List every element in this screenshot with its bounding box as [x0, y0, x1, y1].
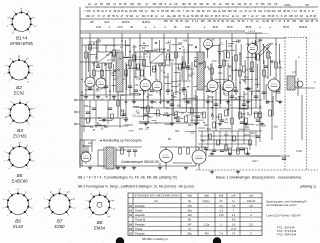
svg-text:18 15 91: 18 15 91: [122, 20, 131, 24]
svg-text:B1: B1: [129, 204, 133, 208]
svg-text:220: 220: [193, 96, 198, 99]
svg-text:470: 470: [175, 91, 180, 94]
svg-text:R34: R34: [244, 134, 249, 137]
svg-text:8,2: 8,2: [188, 101, 192, 104]
svg-text:8,2: 8,2: [176, 110, 180, 113]
svg-text:EM34: EM34: [94, 226, 106, 231]
svg-text:100: 100: [97, 124, 102, 127]
svg-text:50p: 50p: [170, 59, 175, 62]
svg-text:28 26 31: 28 26 31: [299, 25, 308, 29]
svg-text:330: 330: [262, 125, 267, 128]
svg-text:8,2: 8,2: [187, 114, 191, 117]
svg-text:EC92: EC92: [14, 91, 25, 96]
svg-text:Valt: Valt: [204, 194, 209, 198]
svg-text:5k6: 5k6: [175, 130, 180, 133]
svg-text:58: 58: [306, 3, 310, 7]
svg-text:B3: B3: [129, 213, 133, 217]
svg-text:5k6: 5k6: [207, 128, 212, 131]
svg-text:4,7: 4,7: [121, 110, 125, 113]
svg-text:2,2: 2,2: [228, 104, 232, 107]
svg-text:330: 330: [198, 63, 203, 66]
svg-text:(afdeling 1): (afdeling 1): [300, 185, 316, 189]
svg-text:-: -: [251, 219, 252, 222]
svg-text:8,2: 8,2: [211, 115, 215, 118]
svg-text:5k6: 5k6: [139, 128, 144, 131]
svg-text:R17: R17: [148, 116, 153, 119]
svg-text:R30: R30: [216, 116, 221, 119]
svg-text:120+41: 120+41: [247, 199, 256, 203]
svg-text:50p: 50p: [125, 124, 130, 127]
svg-text:L17: L17: [292, 71, 297, 74]
svg-text:4,5: 4,5: [232, 218, 236, 222]
svg-text:18 15 91: 18 15 91: [142, 20, 151, 24]
svg-text:100: 100: [161, 100, 166, 103]
svg-text:100: 100: [228, 45, 233, 48]
svg-text:R19: R19: [164, 76, 169, 79]
svg-text:470: 470: [165, 65, 170, 68]
svg-text:81 87: 81 87: [213, 25, 219, 29]
svg-text:1 pein (12x7+5x4x) + 500 AF: 1 pein (12x7+5x4x) + 500 AF: [266, 214, 301, 218]
svg-text:7,5: 7,5: [232, 204, 236, 208]
svg-text:330: 330: [189, 44, 194, 47]
svg-text:0,1: 0,1: [193, 115, 197, 118]
svg-text:220: 220: [190, 131, 195, 134]
svg-text:2,2: 2,2: [145, 128, 149, 131]
svg-text:Heptode: Heptode: [135, 213, 145, 217]
svg-text:12 47: 12 47: [96, 25, 102, 29]
svg-text:85 78: 85 78: [283, 25, 289, 29]
svg-text:140: 140: [187, 213, 192, 217]
svg-text:EABC80: EABC80: [11, 179, 28, 184]
svg-text:4,7: 4,7: [142, 50, 146, 53]
svg-text:1,25: 1,25: [218, 213, 224, 217]
svg-text:R28: R28: [208, 96, 213, 99]
svg-text:5k6: 5k6: [104, 126, 109, 129]
svg-text:4,5: 4,5: [249, 204, 253, 208]
svg-text:0,1: 0,1: [220, 43, 224, 46]
svg-text:5k6: 5k6: [134, 51, 139, 54]
svg-text:50p: 50p: [274, 126, 279, 129]
svg-text:R27: R27: [204, 124, 209, 127]
svg-text:S14: S14: [178, 42, 183, 45]
svg-text:4a 47: 4a 47: [104, 20, 110, 24]
svg-text:100: 100: [251, 132, 256, 135]
svg-text:Volt: Volt: [219, 194, 224, 198]
svg-text:Pentode: Pentode: [135, 204, 145, 208]
svg-text:EZ80: EZ80: [54, 224, 65, 229]
svg-text:100: 100: [245, 126, 250, 129]
svg-text:4,7: 4,7: [100, 99, 104, 102]
svg-text:R40: R40: [270, 60, 275, 63]
svg-text:100: 100: [141, 63, 146, 66]
svg-text:0,5W: 0,5W: [296, 150, 302, 153]
svg-text:12 47: 12 47: [117, 25, 123, 29]
svg-text:147: 147: [187, 222, 192, 226]
svg-text:C61: C61: [218, 72, 223, 75]
svg-text:2,2: 2,2: [219, 204, 223, 208]
svg-text:0,1: 0,1: [124, 101, 128, 104]
svg-text:C: C: [314, 80, 316, 84]
svg-text:330: 330: [95, 90, 100, 93]
svg-text:C68: C68: [240, 116, 245, 119]
svg-text:-: -: [206, 219, 207, 222]
svg-text:85 78: 85 78: [227, 25, 233, 29]
svg-text:4,7: 4,7: [136, 110, 140, 113]
svg-text:C66: C66: [232, 90, 237, 93]
svg-text:4,7: 4,7: [167, 115, 171, 118]
svg-text:C71: C71: [264, 76, 269, 79]
svg-text:330: 330: [152, 101, 157, 104]
svg-text:NB NB's 1 stelling f.o.: NB NB's 1 stelling f.o.: [142, 237, 169, 241]
svg-text:S20: S20: [276, 92, 281, 95]
svg-text:-: -: [206, 205, 207, 208]
svg-text:met richtwater loss com/?.: met richtwater loss com/?.: [266, 203, 297, 207]
svg-text:2,2: 2,2: [168, 40, 172, 43]
svg-text:26a: 26a: [187, 232, 192, 236]
svg-text:330: 330: [200, 112, 205, 115]
svg-text:220: 220: [190, 73, 195, 76]
svg-text:740: 740: [204, 232, 209, 236]
svg-text:B4: B4: [129, 222, 133, 226]
svg-text:NB 1 = 4 = 5 = 4 : 5 omwikkeli: NB 1 = 4 = 5 = 4 : 5 omwikkelingen. Fo, …: [78, 176, 177, 180]
svg-text:-: -: [251, 210, 252, 213]
svg-text:4,7: 4,7: [136, 78, 140, 81]
svg-text:C17: C17: [120, 94, 125, 97]
svg-text:5k6: 5k6: [84, 105, 89, 108]
svg-text:2,2: 2,2: [193, 98, 197, 101]
svg-text:2261: 2261: [284, 3, 291, 7]
svg-text:C64: C64: [224, 134, 229, 137]
svg-text:B2: B2: [129, 209, 133, 213]
svg-text:50p: 50p: [133, 46, 138, 49]
svg-text:8,2: 8,2: [175, 54, 179, 57]
svg-text:Vg2(+): Vg2(+): [203, 199, 211, 203]
svg-text:2,5: 2,5: [249, 222, 253, 226]
svg-text:mA: mA: [249, 194, 253, 198]
svg-text:12 47: 12 47: [185, 25, 191, 29]
svg-text:7,4: 7,4: [219, 232, 223, 236]
svg-text:2,2: 2,2: [184, 95, 188, 98]
svg-text:R33: R33: [244, 76, 249, 79]
svg-text:kst: kst: [154, 199, 158, 203]
svg-text:S19: S19: [258, 39, 263, 42]
svg-text:-1,2: -1,2: [219, 209, 224, 213]
svg-text:C117: C117: [252, 159, 259, 163]
svg-text:F7/2 : F72 F143: F7/2 : F72 F143: [277, 229, 297, 233]
svg-text:R37: R37: [256, 90, 261, 93]
svg-text:B5: B5: [129, 227, 133, 231]
svg-text:-: -: [206, 210, 207, 213]
svg-text:1,2a: 1,2a: [204, 222, 210, 226]
svg-text:Spanning gem. met t bedrading: Spanning gem. met t bedrading Fl.: [266, 200, 307, 204]
svg-text:4,7: 4,7: [107, 59, 111, 62]
svg-text:+ 12 4: + 12 4: [248, 30, 256, 33]
svg-text:Triode: Triode: [135, 209, 143, 213]
svg-text:93: 93: [254, 43, 258, 47]
svg-text:◄ Aansluiting op Ferroceptor.: ◄ Aansluiting op Ferroceptor.: [99, 139, 143, 143]
svg-text:-: -: [221, 219, 222, 222]
svg-text:0,1: 0,1: [191, 68, 195, 71]
svg-text:C14: C14: [110, 72, 115, 75]
svg-text:NB 3 Toonregelaar m. behgr., c: NB 3 Toonregelaar m. behgr., coëfficiënt…: [78, 185, 195, 189]
svg-text:1,4: 1,4: [232, 222, 236, 226]
svg-text:0,1: 0,1: [244, 93, 248, 96]
svg-text:8,2: 8,2: [133, 115, 137, 118]
svg-text:Blauw: 2 omwikkelingen: afwezi: Blauw: 2 omwikkelingen: afwezig antenne …: [216, 176, 302, 180]
svg-text:170: 170: [187, 204, 192, 208]
svg-text:Pentode: Pentode: [135, 222, 145, 226]
svg-text:mA: mA: [231, 194, 235, 198]
svg-text:Onderstempel 88240-05: Onderstempel 88240-05: [121, 160, 159, 164]
svg-text:Pentode: Pentode: [135, 232, 145, 236]
svg-text:-: -: [206, 228, 207, 231]
svg-text:2,2: 2,2: [264, 47, 268, 50]
svg-text:100: 100: [278, 67, 283, 70]
svg-text:STANDEN EN OMSCHRIJVING: STANDEN EN OMSCHRIJVING: [135, 194, 180, 198]
svg-text:Volt: Volt: [187, 194, 192, 198]
svg-text:-: -: [206, 214, 207, 217]
svg-text:470: 470: [143, 53, 148, 56]
svg-text:S24: S24: [88, 142, 93, 145]
svg-text:-: -: [251, 228, 252, 231]
svg-text:R24: R24: [188, 124, 193, 127]
svg-text:85 78: 85 78: [246, 25, 252, 29]
svg-text:10a: 10a: [187, 209, 192, 213]
svg-text:F7/1 : 56 F144: F7/1 : 56 F144: [277, 226, 295, 230]
svg-text:EL84: EL84: [13, 224, 23, 229]
svg-text:B6: B6: [129, 232, 133, 236]
svg-text:1,4: 1,4: [232, 213, 236, 217]
svg-text:EF85+EF85: EF85+EF85: [10, 41, 33, 46]
svg-text:F7/3 : F54 F144: F7/3 : F54 F144: [277, 233, 297, 237]
svg-text:ECH81: ECH81: [13, 134, 27, 139]
svg-text:4,7: 4,7: [160, 69, 164, 72]
svg-text:C72: C72: [256, 124, 261, 127]
svg-text:R16: R16: [152, 68, 157, 71]
svg-text:2,2: 2,2: [184, 101, 188, 104]
svg-text:Triode: Triode: [135, 227, 143, 231]
svg-text:-0,77: -0,77: [231, 227, 237, 231]
svg-text:-: -: [221, 228, 222, 231]
svg-text:Triode 5): Triode 5): [135, 218, 145, 222]
svg-text:220: 220: [224, 94, 229, 97]
